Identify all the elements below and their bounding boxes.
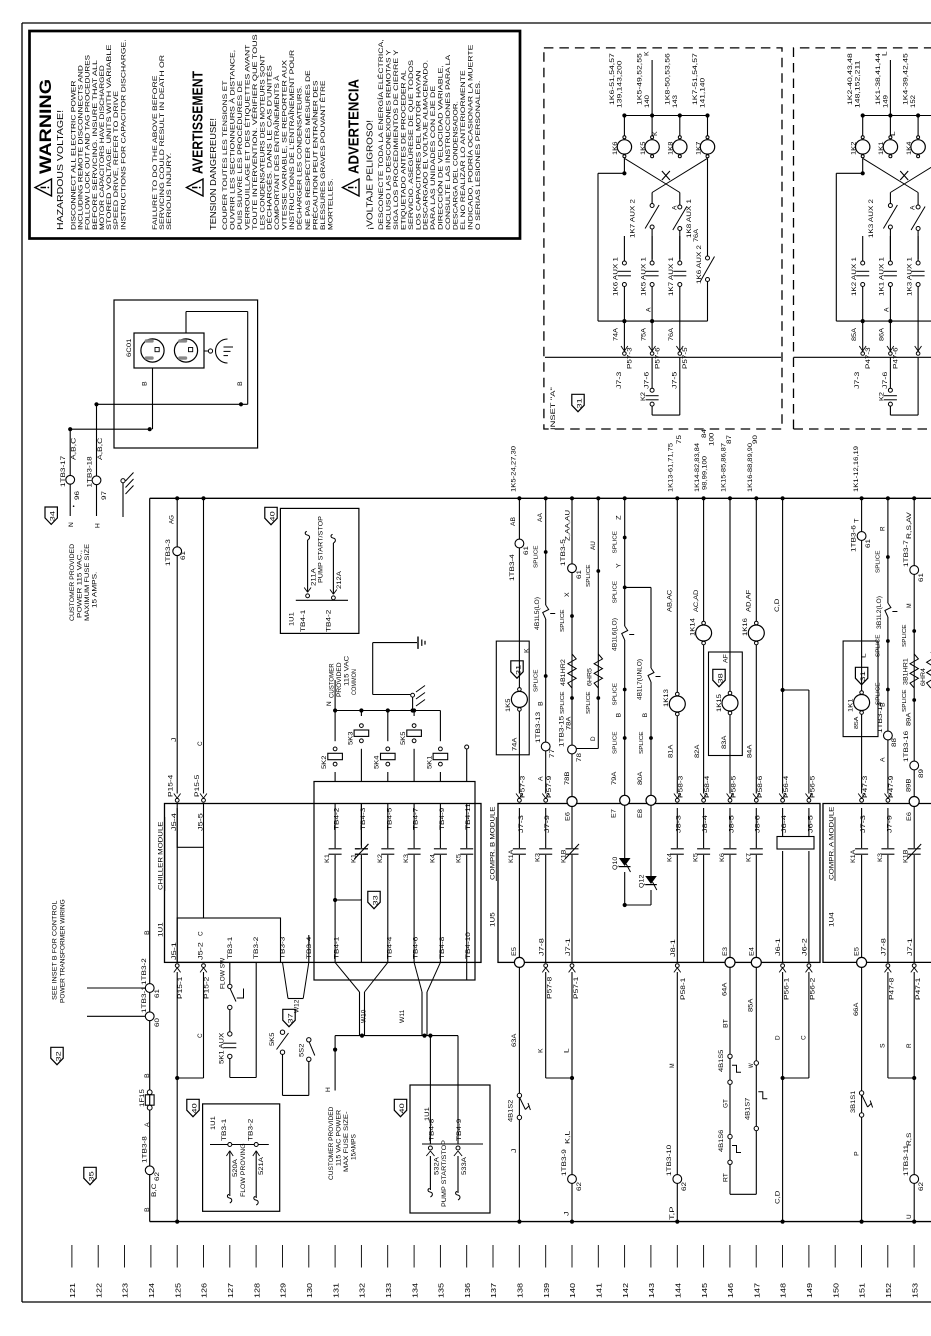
svg-text:MAXIMUM FUSE SIZE: MAXIMUM FUSE SIZE [84, 544, 91, 621]
svg-text:142: 142 [623, 1283, 630, 1298]
terminal 1TB3-8 [145, 1166, 154, 1175]
svg-text:1TB3-18: 1TB3-18 [87, 456, 94, 488]
relay coil 5K5 [413, 711, 415, 717]
inset coil bus [863, 115, 931, 117]
svg-text:CUSTOMER PROVIDED: CUSTOMER PROVIDED [329, 1106, 335, 1180]
svg-text:89B: 89B [906, 779, 913, 792]
relay coil 1K1 box [843, 641, 878, 737]
svg-text:40: 40 [192, 1102, 198, 1113]
svg-text:CUSTOMER: CUSTOMER [330, 663, 336, 698]
inset coil bus [624, 115, 707, 117]
svg-text:SPLICE: SPLICE [876, 550, 882, 573]
svg-text:82A: 82A [694, 744, 701, 758]
relay coil 1K16 [755, 621, 759, 625]
svg-text:148,152,211: 148,152,211 [856, 60, 862, 108]
wire S [887, 972, 889, 1078]
splice [649, 736, 653, 740]
svg-text:C: C [198, 931, 205, 936]
svg-text:141: 141 [597, 1283, 604, 1298]
terminal 1TB3-4 [515, 539, 524, 548]
terminal 1TB3-7 [910, 566, 919, 575]
svg-text:POWER 115 VAC.,: POWER 115 VAC., [77, 550, 84, 618]
svg-text:B: B [237, 381, 244, 386]
svg-text:K1: K1 [324, 853, 331, 863]
svg-text:AG: AG [169, 515, 176, 524]
svg-text:1TB3-16: 1TB3-16 [903, 730, 910, 762]
svg-text:K1: K1 [350, 853, 357, 863]
svg-text:1TB3-6: 1TB3-6 [851, 524, 858, 552]
svg-text:1K15-85,86,87: 1K15-85,86,87 [721, 442, 728, 492]
svg-text:K1B: K1B [903, 850, 910, 863]
wire line 146 [729, 498, 731, 793]
svg-text:1K1: 1K1 [878, 141, 885, 155]
splice [886, 555, 890, 559]
contact K1B [571, 807, 573, 963]
flag note 32 [51, 1047, 63, 1064]
flow switch FLOW SW [229, 962, 231, 984]
splice [544, 550, 548, 554]
svg-text:98,99,100: 98,99,100 [702, 455, 709, 490]
svg-text:ADVERTENCIA: ADVERTENCIA [346, 79, 363, 174]
svg-text:FLOW SW: FLOW SW [220, 958, 227, 989]
svg-text:61: 61 [865, 538, 872, 548]
contact K1 / pins TB4-3 [360, 804, 362, 963]
svg-text:J7-6: J7-6 [883, 371, 889, 389]
svg-text:AA: AA [537, 512, 544, 522]
svg-text:P58-5: P58-5 [731, 775, 738, 798]
svg-text:152: 152 [911, 94, 917, 108]
splice [623, 688, 627, 692]
svg-text:60: 60 [154, 1017, 161, 1027]
svg-text:J7-1: J7-1 [907, 937, 914, 956]
svg-text:C: C [801, 1035, 808, 1040]
svg-text:1U4: 1U4 [829, 912, 836, 927]
pressure switch 4B1S5 [728, 1054, 732, 1058]
svg-text:K: K [652, 131, 659, 136]
svg-text:CONSULTE LAS INSTRUCCIONES PAR: CONSULTE LAS INSTRUCCIONES PARA LA [445, 54, 452, 230]
svg-text:SPLICE: SPLICE [534, 669, 540, 692]
svg-text:4B1S2: 4B1S2 [508, 1099, 515, 1122]
line number 142 [624, 1245, 626, 1268]
wire 85A [755, 968, 757, 1195]
terminal 1TB3-16 [910, 761, 919, 770]
svg-text:AB,AC: AB,AC [667, 589, 674, 612]
svg-text:SIGA LOS PROCEDIMIENTOS DE CIE: SIGA LOS PROCEDIMIENTOS DE CIERRE Y [393, 49, 400, 230]
svg-text:J7-6: J7-6 [645, 371, 651, 389]
wire 520A [228, 1143, 232, 1147]
svg-text:K: K [643, 51, 650, 56]
relay coil 1K6 [623, 116, 625, 139]
wire 66A [861, 968, 863, 1222]
svg-text:61: 61 [918, 572, 925, 582]
chassis ground line 123 [121, 479, 125, 483]
svg-text:1K13-61,71,75: 1K13-61,71,75 [668, 442, 675, 492]
svg-text:K7: K7 [745, 852, 752, 862]
svg-text:DISCONNECT ALL ELECTRIC POWER: DISCONNECT ALL ELECTRIC POWER [71, 80, 78, 230]
connector J8-6 [754, 798, 758, 802]
svg-text:Y: Y [616, 563, 623, 568]
svg-text:K3: K3 [403, 853, 410, 863]
svg-text:5S2: 5S2 [299, 1043, 306, 1057]
wire col 136 stub [465, 745, 469, 749]
svg-text:K5: K5 [456, 853, 463, 863]
contact K4 [676, 808, 678, 962]
group box 38 [709, 652, 743, 756]
svg-text:74A: 74A [614, 328, 620, 341]
svg-text:WARNING: WARNING [37, 79, 55, 174]
line number 152 [887, 1245, 889, 1268]
sensor 4B1L6 [623, 626, 626, 640]
resistor 6HR5 [594, 654, 602, 688]
svg-text:X: X [564, 592, 571, 597]
wires to connectors [862, 321, 864, 353]
svg-text:PROVIDED: PROVIDED [337, 662, 343, 697]
line number 122 [97, 1245, 99, 1268]
wire 533A [457, 1036, 459, 1144]
wire outlet hot loop [185, 312, 187, 334]
svg-text:75A: 75A [641, 328, 647, 341]
svg-text:TB4-11: TB4-11 [465, 802, 472, 830]
svg-text:J5-2: J5-2 [197, 941, 204, 960]
svg-text:J: J [564, 1211, 571, 1216]
svg-text:CUSTOMER PROVIDED: CUSTOMER PROVIDED [69, 543, 76, 621]
pin E8 [646, 795, 656, 805]
splice [596, 569, 600, 573]
svg-text:1K3 AUX 1: 1K3 AUX 1 [907, 256, 913, 296]
svg-text:TB4-5: TB4-5 [386, 807, 393, 830]
wire line 126 [203, 498, 205, 793]
splice node [623, 586, 627, 590]
svg-text:1U5: 1U5 [490, 912, 497, 927]
wire 521A [254, 1143, 258, 1147]
line number 134 [413, 1245, 415, 1268]
contact 5K1 AUX [229, 1010, 231, 1032]
svg-text:78A: 78A [566, 716, 573, 730]
svg-text:62: 62 [681, 1181, 688, 1191]
svg-text:1K6: 1K6 [612, 141, 619, 155]
wire ground loop [372, 643, 374, 695]
svg-text:TB3-3: TB3-3 [280, 936, 287, 959]
left rail bus [150, 1221, 931, 1223]
line number 147 [755, 1245, 757, 1268]
wire 64A [729, 968, 731, 1195]
contact K6 [729, 808, 731, 962]
svg-text:FLOW PROVING: FLOW PROVING [240, 1143, 247, 1197]
pump start stop box 1U1 [280, 508, 359, 633]
svg-text:TB4-6: TB4-6 [413, 936, 420, 959]
svg-text:143: 143 [673, 94, 679, 108]
svg-text:143: 143 [649, 1283, 656, 1298]
svg-text:J: J [511, 1148, 518, 1153]
wire line 152 [887, 498, 889, 793]
terminal 1TB3-9 [568, 1175, 577, 1184]
svg-text:AC,AD: AC,AD [693, 589, 700, 612]
svg-text:90: 90 [752, 434, 759, 444]
svg-text:1TB3-9: 1TB3-9 [561, 1148, 568, 1176]
connector J5-1 [175, 964, 179, 968]
line number 144 [676, 1245, 678, 1268]
convenience outlet box [114, 300, 258, 448]
svg-text:1TB3-14: 1TB3-14 [877, 701, 884, 733]
svg-text:J7-3: J7-3 [855, 371, 861, 389]
contact 1K6 AUX 1 [623, 236, 625, 261]
svg-text:126: 126 [202, 1283, 209, 1298]
svg-text:AD,AF: AD,AF [746, 589, 753, 612]
connector J7-8 [544, 964, 548, 968]
svg-text:SPLICE: SPLICE [639, 731, 645, 754]
svg-text:1K15: 1K15 [716, 693, 723, 712]
svg-text:4B1L5(LO): 4B1L5(LO) [534, 597, 541, 630]
svg-text:PUMP START/STOP: PUMP START/STOP [441, 1140, 448, 1207]
pin E5 (A) [857, 957, 867, 967]
svg-text:3B1S1: 3B1S1 [850, 1090, 857, 1113]
svg-text:SPLICE: SPLICE [613, 580, 619, 603]
svg-text:E5: E5 [854, 946, 861, 956]
svg-text:L: L [861, 653, 868, 658]
terminal bar [422, 1143, 483, 1145]
wire bypass [623, 158, 625, 173]
svg-text:6C01: 6C01 [126, 338, 133, 357]
contact K5 [703, 808, 705, 962]
inset connector line [545, 356, 781, 358]
wire to 1TB3-15 [577, 748, 599, 750]
svg-text:SPLICE: SPLICE [560, 609, 566, 632]
relay coil 1K1 [860, 691, 864, 695]
svg-text:HAZARDOUS VOLTAGE!: HAZARDOUS VOLTAGE! [56, 110, 65, 230]
svg-text:FAILURE TO DO THE ABOVE BEFORE: FAILURE TO DO THE ABOVE BEFORE [152, 75, 159, 230]
svg-text:532A: 532A [434, 1156, 441, 1175]
svg-text:125: 125 [175, 1283, 182, 1298]
svg-text:115 VAC POWER: 115 VAC POWER [337, 1109, 343, 1166]
svg-text:64A: 64A [721, 982, 728, 996]
svg-text:S: S [880, 1043, 887, 1048]
svg-text:R,S,AV: R,S,AV [906, 511, 913, 539]
svg-text:BT: BT [723, 1019, 730, 1028]
wire branch to 143 [625, 586, 651, 588]
svg-text:NE PAS RESPECTER CES MESURES D: NE PAS RESPECTER CES MESURES DE [305, 70, 312, 230]
svg-text:TB3-2: TB3-2 [247, 1118, 254, 1141]
svg-text:P57-1: P57-1 [573, 976, 580, 999]
contact K3 / pins TB4-7 [413, 804, 415, 963]
svg-text:140: 140 [570, 1283, 577, 1298]
svg-text:1TB3-17: 1TB3-17 [60, 455, 67, 487]
svg-text:141,140: 141,140 [701, 77, 707, 108]
pin E6 [567, 797, 577, 807]
svg-text:100: 100 [709, 432, 716, 446]
svg-text:P56-2: P56-2 [810, 977, 817, 1000]
inset bus A [836, 320, 931, 322]
svg-text:D: D [590, 736, 597, 741]
svg-text:PUMP START/STOP: PUMP START/STOP [318, 516, 325, 583]
terminal 1TB3-14 [884, 731, 893, 740]
svg-text:COMPR. B MODULE: COMPR. B MODULE [490, 806, 497, 880]
line number 146 [729, 1245, 731, 1268]
svg-text:J6-1: J6-1 [775, 937, 782, 956]
svg-text:P57-3: P57-3 [520, 775, 527, 798]
svg-text:H: H [95, 523, 102, 528]
svg-text:81A: 81A [668, 744, 675, 758]
svg-text:15AMPS: 15AMPS [352, 1134, 358, 1160]
terminal bar TB4 [296, 599, 348, 601]
svg-text:1K8 AUX 1: 1K8 AUX 1 [687, 198, 693, 238]
resistor 4B1HR2 [568, 654, 576, 688]
relay coil 1K8 [679, 116, 681, 139]
terminal 1TB3-5 [568, 564, 577, 573]
svg-text:W12: W12 [294, 999, 301, 1013]
svg-text:W11: W11 [399, 1009, 406, 1023]
contact 1K6 AUX 2 76A [707, 158, 709, 256]
earth ground [417, 637, 419, 649]
svg-text:TB4-9: TB4-9 [456, 1118, 463, 1141]
contact 1K2 AUX 1 [862, 236, 864, 261]
svg-text:COMPR. A MODULE: COMPR. A MODULE [829, 806, 836, 880]
svg-text:135: 135 [439, 1283, 446, 1298]
svg-text:SPLICE: SPLICE [560, 691, 566, 714]
svg-text:AVERTISSEMENT: AVERTISSEMENT [190, 71, 207, 174]
svg-text:84A: 84A [747, 744, 754, 758]
svg-text:P15-5: P15-5 [194, 774, 201, 797]
svg-text:MOTOR CAPACITORS HAVE DISCHARG: MOTOR CAPACITORS HAVE DISCHARGED [99, 65, 106, 230]
svg-text:1TB3-7: 1TB3-7 [903, 539, 910, 567]
svg-text:5K1: 5K1 [426, 755, 433, 769]
wire TB4-10 stub [466, 962, 468, 980]
terminal bar [210, 1144, 269, 1146]
svg-text:148: 148 [781, 1283, 788, 1298]
svg-text:M: M [906, 603, 913, 608]
svg-text:K4: K4 [666, 852, 673, 862]
svg-text:P56-4: P56-4 [783, 775, 790, 798]
svg-text:Q12: Q12 [639, 874, 646, 888]
connector J8-3 [675, 798, 679, 802]
wire harness feed [335, 1035, 458, 1037]
line number 127 [229, 1245, 231, 1268]
svg-text:123: 123 [123, 1283, 130, 1298]
svg-text:INDICADO, PODRÍA OCASIONAR LA: INDICADO, PODRÍA OCASIONAR LA MUERTE [465, 44, 474, 230]
wire line 139 [545, 498, 547, 793]
svg-text:P15-4: P15-4 [168, 774, 175, 797]
relay coil 5K3 [360, 711, 362, 717]
svg-text:6HR5: 6HR5 [587, 667, 594, 686]
svg-text:PRÉCAUTION PEUT ENTRAÎNER DES: PRÉCAUTION PEUT ENTRAÎNER DES [310, 80, 319, 230]
connector J8-1 [675, 964, 679, 968]
svg-text:4B1L6(LO): 4B1L6(LO) [612, 618, 619, 651]
svg-text:TB4-1: TB4-1 [300, 609, 307, 632]
svg-text:TB4-1: TB4-1 [334, 936, 341, 959]
wire line 147 [755, 498, 757, 793]
contact K1A (A) [861, 808, 863, 962]
svg-text:J7-8: J7-8 [881, 937, 888, 956]
svg-text:SERVICING COULD RESULT IN DEAT: SERVICING COULD RESULT IN DEATH OR [159, 55, 166, 230]
svg-text:96: 96 [74, 490, 81, 500]
compr A module 1U4 box [823, 804, 931, 963]
svg-text:COUPER TOUTES LES TENSIONS ET: COUPER TOUTES LES TENSIONS ET [222, 81, 229, 230]
relay coil 1K15 [728, 691, 732, 695]
svg-text:P57-8: P57-8 [547, 976, 554, 999]
wires to connectors [623, 321, 625, 353]
svg-text:1K5-24,27,30: 1K5-24,27,30 [511, 445, 518, 492]
svg-text:5K5: 5K5 [400, 731, 407, 745]
svg-text:PARA LAS UNIDADES CON EJE DE: PARA LAS UNIDADES CON EJE DE [430, 85, 437, 230]
contact K1 / pins TB4-2 [334, 804, 336, 963]
bus N common [335, 710, 440, 712]
svg-text:1K8-50,53,56: 1K8-50,53,56 [665, 52, 671, 105]
svg-text:¡VOLTAJE PELIGROSO!: ¡VOLTAJE PELIGROSO! [366, 120, 375, 230]
wire stub to terminal 60 [87, 1015, 145, 1017]
svg-text:TB4-10: TB4-10 [465, 931, 472, 959]
contact K1A [518, 808, 520, 962]
wire crossover [624, 158, 679, 192]
svg-text:P15-2: P15-2 [204, 976, 211, 999]
svg-text:1U1: 1U1 [158, 922, 165, 937]
line number 150 [834, 1245, 836, 1268]
cable W10 [335, 962, 359, 992]
warning title FR [187, 179, 204, 196]
svg-text:62: 62 [918, 1181, 925, 1191]
relay coil 1K5 box [496, 641, 529, 755]
line number 151 [861, 1245, 863, 1268]
svg-text:SPLICE: SPLICE [586, 691, 592, 714]
svg-text:Z: Z [616, 515, 623, 520]
line number 136 [466, 1245, 468, 1268]
wire H stub [334, 1036, 336, 1091]
svg-text:1K4-39,42,45: 1K4-39,42,45 [904, 52, 910, 105]
svg-text:TB4-2: TB4-2 [326, 609, 333, 632]
svg-text:P47-9: P47-9 [888, 775, 895, 798]
svg-text:1TB3-1: 1TB3-1 [141, 985, 148, 1013]
svg-text:SPLICE: SPLICE [613, 731, 619, 754]
svg-text:1TB3-3: 1TB3-3 [165, 538, 172, 566]
svg-text:GT: GT [723, 1099, 730, 1108]
wire line 124 [149, 498, 151, 1221]
svg-text:SPLICE: SPLICE [586, 564, 592, 587]
svg-text:137: 137 [491, 1283, 498, 1298]
svg-text:84: 84 [701, 428, 708, 438]
svg-text:1K6 AUX 1: 1K6 AUX 1 [614, 256, 620, 296]
svg-text:1K7: 1K7 [695, 141, 702, 155]
pin E4 [751, 957, 761, 967]
svg-text:VERROUILLAGE ET DES ÉTIQUETTES: VERROUILLAGE ET DES ÉTIQUETTES AVANT [242, 45, 251, 230]
flag note 31 [511, 661, 523, 678]
svg-text:1TB3-13: 1TB3-13 [535, 711, 542, 743]
relay coil 5K2 [334, 711, 336, 742]
splice [570, 614, 574, 618]
svg-text:COMMON: COMMON [352, 669, 358, 695]
flag note 38 [713, 669, 725, 686]
cable W12 [283, 962, 289, 998]
wire line 144 [676, 498, 678, 793]
contact K2 / pins TB4-5 [387, 804, 389, 963]
svg-text:62: 62 [154, 1171, 161, 1181]
inner connector block J5 [177, 804, 203, 848]
svg-text:533A: 533A [461, 1156, 468, 1175]
svg-text:124: 124 [149, 1283, 156, 1298]
svg-text:40: 40 [400, 1102, 406, 1113]
line number 149 [808, 1245, 810, 1268]
svg-text:5K4: 5K4 [374, 755, 381, 769]
svg-text:127: 127 [228, 1283, 235, 1298]
svg-text:P15-1: P15-1 [177, 976, 184, 999]
svg-text:38: 38 [718, 672, 724, 683]
svg-text:H: H [325, 1087, 332, 1092]
sensor 4B1L5 [544, 605, 547, 619]
svg-text:1K5 AUX 1: 1K5 AUX 1 [641, 256, 647, 296]
svg-text:DIRECCIÓN DE VELOCIDAD VARIABL: DIRECCIÓN DE VELOCIDAD VARIABLE, [436, 65, 445, 230]
svg-text:P58-3: P58-3 [678, 775, 685, 798]
svg-text:T,P: T,P [669, 1207, 676, 1220]
line number 129 [282, 1245, 284, 1268]
svg-text:E6: E6 [906, 811, 913, 821]
relay coil 1K5 [651, 116, 653, 139]
